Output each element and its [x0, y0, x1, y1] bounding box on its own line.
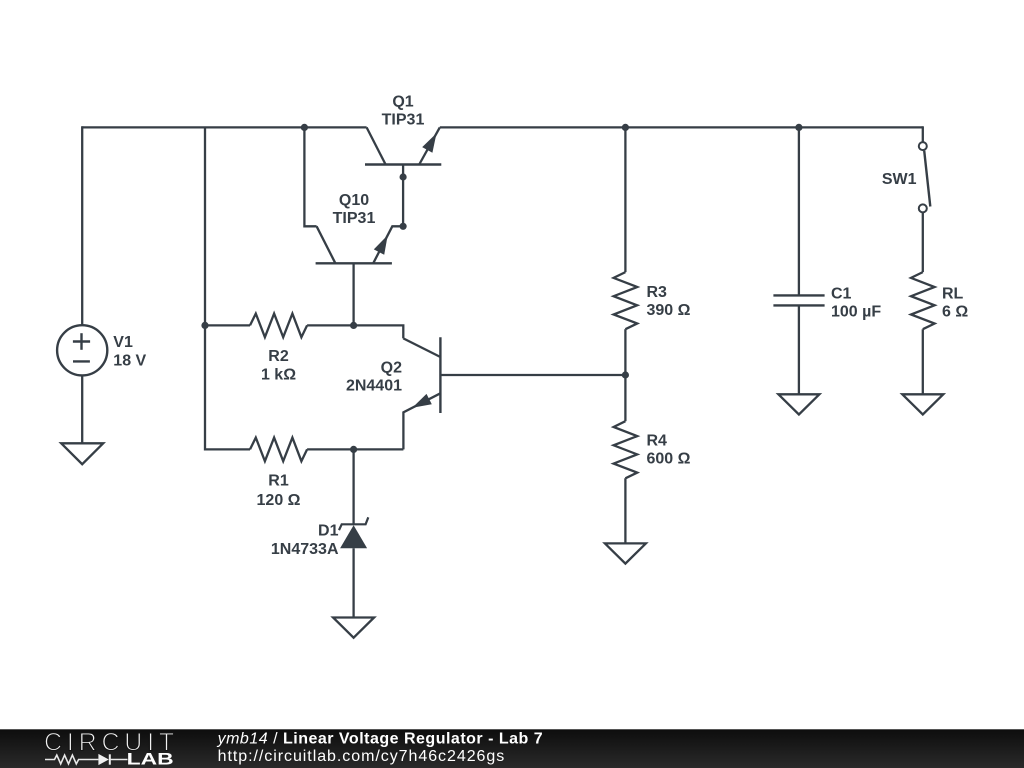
svg-text:390 Ω: 390 Ω	[647, 302, 691, 319]
transistor Q1 emitter lead	[419, 127, 440, 164]
transistor Q2 emitter arrow	[412, 394, 432, 408]
svg-text:D1: D1	[318, 523, 339, 540]
node R2 / Q10 base / Q2 collector	[350, 322, 357, 329]
wire Q2 collector from R2 node	[354, 325, 404, 338]
logo resistor-diode wire	[45, 755, 98, 764]
wire C1 top lead	[798, 127, 800, 295]
wire R2 left lead	[205, 324, 250, 326]
node Q10 emitter	[400, 223, 407, 230]
transistor Q1 base bar	[365, 163, 441, 165]
svg-text:C1: C1	[831, 286, 852, 303]
svg-text:2N4401: 2N4401	[346, 378, 402, 395]
node left rail / R2	[201, 322, 208, 329]
svg-text:6 Ω: 6 Ω	[942, 304, 968, 321]
diode D1 cathode bar	[339, 517, 368, 530]
resistor R4	[614, 421, 638, 478]
svg-text:R1: R1	[268, 473, 289, 490]
svg-text:http://circuitlab.com/cy7h46c2: http://circuitlab.com/cy7h46c2426gs	[218, 748, 506, 765]
transistor Q1 emitter arrow	[422, 133, 436, 153]
svg-text:120 Ω: 120 Ω	[257, 492, 301, 509]
svg-text:1N4733A: 1N4733A	[271, 541, 339, 558]
wire Q1 base to Q10 emitter	[402, 177, 404, 226]
wire D1 bottom lead	[352, 548, 354, 617]
svg-text:600 Ω: 600 Ω	[647, 451, 691, 468]
svg-text:100 µF: 100 µF	[831, 304, 881, 321]
transistor Q10 collector diagonal	[317, 226, 336, 263]
transistor Q2 emitter lead	[403, 393, 440, 449]
svg-text:V1: V1	[113, 334, 133, 351]
transistor Q2 collector diagonal	[403, 338, 440, 357]
diode D1 triangle	[340, 525, 367, 548]
wire V1 bottom lead	[81, 375, 83, 443]
switch SW1 top terminal	[919, 142, 927, 150]
svg-text:SW1: SW1	[882, 171, 917, 188]
transistor Q2 base bar	[439, 337, 441, 413]
svg-text:RL: RL	[942, 286, 964, 303]
transistor Q1 collector lead	[367, 127, 386, 164]
transistor Q10 base bar	[316, 262, 392, 264]
wire R4 bottom lead	[624, 478, 626, 543]
resistor R1	[250, 438, 307, 462]
transistor Q2 base lead wire to divider	[440, 374, 625, 376]
wire RL top lead	[922, 212, 924, 272]
svg-text:Q1: Q1	[392, 94, 413, 111]
svg-text:Q2: Q2	[381, 360, 402, 377]
capacitor C1 bottom plate	[773, 304, 824, 306]
ground below V1	[61, 443, 103, 464]
wire D1 top lead	[352, 449, 354, 524]
wire Q10 collector from top rail	[304, 127, 316, 226]
svg-text:ymb14 / Linear Voltage Regulat: ymb14 / Linear Voltage Regulator - Lab 7	[217, 731, 544, 748]
resistor R2	[250, 314, 307, 338]
voltage source V1	[57, 325, 107, 375]
node top rail / R3	[622, 124, 629, 131]
transistor Q10 emitter arrow	[374, 235, 388, 255]
ground below C1	[778, 394, 819, 414]
ground below RL	[902, 394, 943, 414]
node R3 / R4 / Q2 base	[622, 371, 629, 378]
node Q1 base	[400, 173, 407, 180]
switch SW1 blade	[924, 151, 930, 207]
wire left rail x=205 with bend to R1	[205, 127, 250, 449]
wire R2 right lead	[307, 324, 354, 326]
node top rail / Q10 collector	[301, 124, 308, 131]
capacitor C1 top plate	[773, 294, 824, 296]
svg-text:R4: R4	[647, 433, 668, 450]
svg-text:Q10: Q10	[339, 192, 369, 209]
svg-text:TIP31: TIP31	[333, 210, 376, 227]
logo diode	[98, 754, 108, 765]
wire top rail left segment	[82, 126, 366, 128]
wire R3 bottom lead	[624, 329, 626, 375]
wire RL bottom lead	[922, 329, 924, 394]
svg-text:1 kΩ: 1 kΩ	[261, 367, 296, 384]
wire top rail right segment	[440, 126, 923, 128]
ground below R4	[605, 543, 646, 563]
transistor Q1 base lead	[402, 165, 404, 178]
svg-text:TIP31: TIP31	[382, 112, 425, 129]
ground below D1	[333, 618, 374, 638]
wire R4 top lead	[624, 375, 626, 421]
svg-text:18 V: 18 V	[113, 353, 146, 370]
svg-text:R2: R2	[268, 348, 289, 365]
svg-text:LAB: LAB	[127, 751, 174, 768]
wire R3 top lead	[624, 127, 626, 272]
svg-text:R3: R3	[647, 284, 668, 301]
wire SW1 top lead	[922, 126, 924, 142]
wire V1 top lead	[81, 126, 83, 325]
resistor RL	[911, 272, 935, 329]
node R1 / D1 / Q2 emitter	[350, 446, 357, 453]
wire C1 bottom lead	[798, 305, 800, 394]
switch SW1 bottom terminal	[919, 204, 927, 212]
node top rail / C1	[795, 124, 802, 131]
wire R1 right lead	[307, 448, 354, 450]
wire Q2 emitter to R1 node	[354, 448, 404, 450]
resistor R3	[614, 272, 638, 329]
footer bar background	[0, 729, 1024, 768]
transistor Q10 emitter lead	[373, 226, 403, 263]
transistor Q10 base lead	[352, 263, 354, 325]
